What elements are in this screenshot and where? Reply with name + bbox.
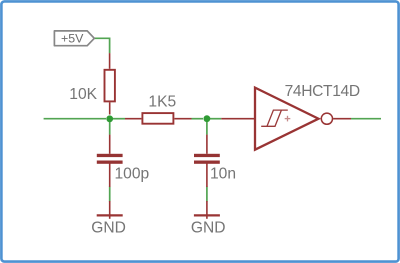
svg-text:GND: GND: [91, 220, 126, 237]
svg-text:74HCT14D: 74HCT14D: [285, 83, 360, 100]
svg-text:100p: 100p: [115, 166, 150, 183]
svg-text:+5V: +5V: [61, 31, 84, 45]
svg-text:10n: 10n: [210, 166, 236, 183]
svg-text:10K: 10K: [69, 86, 97, 103]
svg-text:GND: GND: [191, 220, 226, 237]
svg-text:1K5: 1K5: [148, 94, 176, 111]
